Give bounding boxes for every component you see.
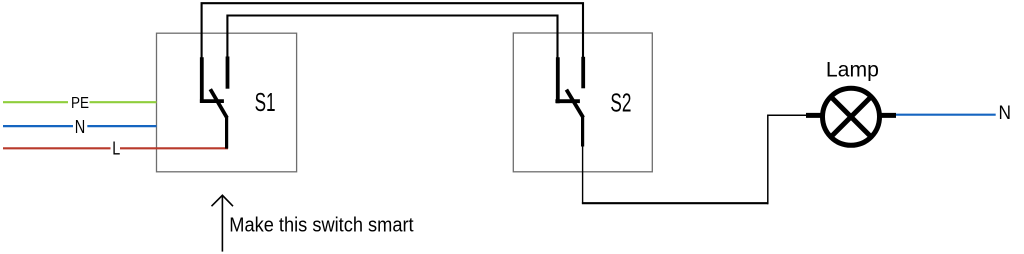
wire to lamp left [767,114,807,116]
wire PE (green) [3,101,157,103]
wire L (red) [3,147,228,149]
annotation arrow [212,195,234,251]
switch S1 contacts [200,57,228,149]
wire S2 pole continuation [582,146,584,204]
lamp symbol [806,88,896,145]
svg-text:Make this switch smart: Make this switch smart [229,214,414,236]
wire top inner (S1 right terminal to S2 left terminal) [227,16,557,60]
switch S2 contacts [555,57,583,147]
svg-text:Lamp: Lamp [826,57,879,81]
label PE [68,95,90,112]
wire N (blue) [3,125,157,127]
label L [111,139,121,159]
svg-text:S1: S1 [255,87,276,117]
wire bottom run [582,202,768,204]
label N [73,117,87,137]
svg-text:S2: S2 [610,87,631,117]
svg-text:N: N [75,117,86,137]
svg-text:N: N [999,103,1012,124]
switch S2 box [513,33,652,172]
wire top outer (S1 left terminal to S2 right terminal) [202,3,583,59]
wire riser to lamp [767,115,769,204]
svg-text:PE: PE [71,95,89,112]
svg-text:L: L [112,139,120,159]
switch S1 box [157,33,297,172]
wire N right (blue) [896,114,996,116]
